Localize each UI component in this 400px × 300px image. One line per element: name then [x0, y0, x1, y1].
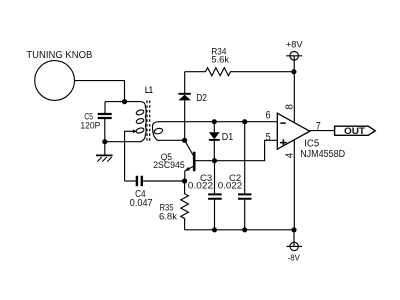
svg-text:D1: D1 — [222, 132, 234, 143]
svg-text:0.022: 0.022 — [188, 181, 213, 192]
svg-text:120P: 120P — [80, 121, 100, 132]
svg-text:6: 6 — [266, 110, 271, 122]
svg-text:OUT: OUT — [344, 126, 365, 136]
svg-text:0.047: 0.047 — [130, 198, 153, 209]
svg-text:L1: L1 — [145, 85, 153, 95]
svg-text:+8V: +8V — [286, 40, 303, 51]
svg-text:6.8k: 6.8k — [159, 211, 177, 222]
svg-text:8: 8 — [285, 104, 296, 110]
svg-text:0.022: 0.022 — [218, 181, 242, 192]
svg-text:TUNING KNOB: TUNING KNOB — [26, 50, 92, 61]
svg-text:5: 5 — [266, 132, 271, 144]
svg-text:IC5: IC5 — [304, 138, 319, 149]
svg-text:D2: D2 — [196, 93, 207, 104]
svg-text:4: 4 — [284, 152, 295, 158]
svg-text:-8V: -8V — [288, 253, 301, 263]
svg-text:5.6k: 5.6k — [211, 55, 229, 66]
svg-text:7: 7 — [316, 120, 321, 132]
svg-text:2SC945: 2SC945 — [153, 160, 185, 171]
svg-text:NJM4558D: NJM4558D — [300, 149, 345, 160]
